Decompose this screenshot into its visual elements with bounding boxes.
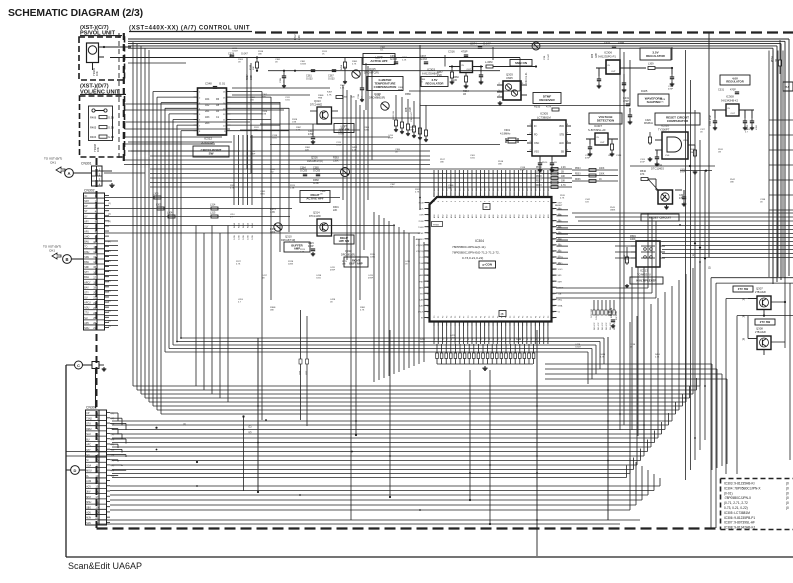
- svg-text:18: 18: [93, 280, 96, 284]
- svg-text:R022: R022: [608, 312, 614, 314]
- svg-text:(2): (2): [112, 465, 115, 467]
- svg-text:8: 8: [510, 201, 512, 202]
- svg-text:(1): (1): [183, 423, 186, 426]
- svg-text:DETECTION: DETECTION: [597, 118, 614, 122]
- svg-text:G.B47: G.B47: [232, 51, 239, 53]
- svg-text:P2: P2: [544, 316, 546, 318]
- svg-text:R451: R451: [239, 222, 241, 228]
- svg-text::78P05B0CJJPN-X: :78P05B0CJJPN-X: [724, 496, 752, 500]
- svg-text:G.3B: G.3B: [108, 126, 114, 130]
- svg-text:AN2: AN2: [543, 215, 546, 219]
- right bus horizontals lower from IC313: [662, 245, 793, 247]
- svg-text:R405: R405: [90, 126, 97, 130]
- svg-text:4.7K: 4.7K: [655, 357, 660, 359]
- inductor L304: [486, 65, 493, 68]
- svg-text:P3: P3: [514, 316, 516, 318]
- svg-text:R36: R36: [592, 53, 594, 58]
- svg-text:SMY: SMY: [558, 281, 563, 283]
- svg-text:3B: 3B: [501, 313, 504, 316]
- svg-text:ADU: ADU: [86, 512, 91, 515]
- left boundary verticals and nested L fan: [132, 42, 134, 386]
- right active HPF label box: [300, 191, 330, 203]
- SMB ON label box: [510, 60, 532, 67]
- svg-text:3: 3: [428, 215, 429, 217]
- svg-text:8: 8: [434, 201, 436, 202]
- svg-text:R58K: R58K: [405, 93, 411, 96]
- svg-text:4.7K: 4.7K: [352, 64, 357, 66]
- svg-text:8: 8: [531, 201, 533, 202]
- svg-text:3TV SW: 3TV SW: [738, 287, 749, 291]
- svg-text:56: 56: [552, 227, 554, 229]
- right hpf sw label box: [334, 235, 354, 244]
- svg-text:Q314: Q314: [313, 211, 320, 215]
- svg-text:8: 8: [438, 201, 440, 202]
- svg-text:8: 8: [518, 201, 520, 202]
- IC310 comparator: [662, 132, 688, 159]
- svg-text:(XST=440X-XX) (A/7) CONTROL UN: (XST=440X-XX) (A/7) CONTROL UNIT: [129, 26, 250, 32]
- svg-text:10K: 10K: [96, 147, 100, 152]
- svg-text:15: 15: [93, 265, 96, 269]
- svg-text:1B: 1B: [463, 93, 466, 96]
- svg-text:4.7K: 4.7K: [327, 94, 332, 96]
- svg-text:IC305 :LC73881M: IC305 :LC73881M: [724, 511, 750, 515]
- svg-text:(1): (1): [249, 426, 252, 429]
- svg-text:AN0: AN0: [501, 215, 504, 219]
- svg-text:(1): (1): [558, 208, 561, 210]
- svg-text:P1: P1: [438, 316, 440, 318]
- svg-text:1BK: 1BK: [420, 342, 425, 344]
- CN302 inductor row 2: [105, 208, 292, 210]
- svg-text:13: 13: [93, 255, 96, 259]
- svg-text:(4): (4): [558, 226, 561, 228]
- svg-text:APC: APC: [84, 322, 89, 325]
- svg-text:2.2K: 2.2K: [402, 60, 407, 62]
- svg-text:G.047: G.047: [596, 314, 598, 320]
- svg-text:8: 8: [506, 201, 508, 202]
- svg-text:(2): (2): [558, 238, 561, 240]
- IC312 left pin wires: [153, 91, 194, 93]
- svg-text:12: 12: [93, 250, 96, 254]
- node B circle: [63, 255, 72, 264]
- svg-text:C31B: C31B: [358, 93, 360, 99]
- svg-text:(1): (1): [558, 256, 561, 258]
- svg-text:1: 1: [428, 203, 429, 205]
- svg-text:G.033: G.033: [306, 78, 313, 81]
- svg-text:S-80739SL-AF: S-80739SL-AF: [588, 128, 606, 132]
- svg-text:SnU: SnU: [86, 434, 91, 436]
- svg-text:G.B1: G.B1: [285, 100, 291, 102]
- IC305 DTMF IC: [532, 120, 566, 156]
- svg-text:T3N2: T3N2: [86, 418, 92, 420]
- svg-text:ACK: ACK: [559, 142, 564, 145]
- svg-text:19: 19: [427, 311, 429, 313]
- svg-text:IC306 :9-81235PB-P1: IC306 :9-81235PB-P1: [724, 516, 755, 520]
- svg-text:VDD: VDD: [559, 125, 564, 128]
- svg-text:AMREFI: AMREFI: [416, 238, 424, 241]
- svg-text:22BK: 22BK: [364, 130, 370, 132]
- svg-text:MO: MO: [420, 293, 424, 295]
- svg-text:SDU: SDU: [84, 257, 89, 259]
- svg-text:LC73881M: LC73881M: [537, 116, 551, 120]
- svg-text:22BK: 22BK: [370, 257, 376, 259]
- svg-text:G.3B: G.3B: [234, 235, 236, 240]
- svg-text:4.19MHz: 4.19MHz: [500, 132, 511, 136]
- svg-text:LCM: LCM: [86, 481, 91, 483]
- 3.5V regulator label box: [421, 77, 448, 87]
- svg-text:(1): (1): [112, 429, 115, 431]
- svg-text:L303: L303: [153, 192, 159, 195]
- svg-text:15: 15: [95, 485, 98, 489]
- svg-text:TGK8: TGK8: [418, 227, 424, 229]
- svg-text:C314 G.01: C314 G.01: [525, 72, 528, 84]
- svg-text:REGULATOR: REGULATOR: [726, 80, 743, 84]
- svg-text:CN303: CN303: [86, 406, 97, 410]
- svg-text:G.B: G.B: [585, 202, 589, 204]
- Q304 transistor: [658, 190, 673, 204]
- bus junction dots: [243, 429, 245, 431]
- svg-text:8: 8: [447, 201, 449, 202]
- svg-text:42: 42: [552, 311, 554, 313]
- IC304 bottom-right resistor column: [593, 300, 595, 310]
- svg-text:2: 2: [428, 209, 429, 211]
- svg-text:(4): (4): [558, 250, 561, 252]
- svg-text:16: 16: [95, 490, 98, 494]
- svg-text:G.033: G.033: [328, 78, 335, 81]
- svg-text:3YS8: 3YS8: [418, 221, 424, 223]
- right bus horizontals upper: [572, 212, 793, 214]
- voltage detection label box: [589, 113, 622, 124]
- svg-text:AN5: AN5: [488, 215, 491, 219]
- svg-text:P6: P6: [459, 316, 461, 318]
- svg-text:AN6: AN6: [526, 215, 529, 219]
- svg-text:IC310: IC310: [661, 124, 669, 128]
- left active HPF label box: [363, 54, 395, 65]
- svg-text:8: 8: [455, 201, 457, 202]
- IC308 caps: [714, 110, 716, 118]
- svg-text:SI: SI: [86, 460, 89, 462]
- svg-text:G.3B: G.3B: [239, 235, 241, 240]
- svg-text:8: 8: [451, 201, 453, 202]
- svg-text:6: 6: [428, 233, 429, 235]
- svg-text:R450: R450: [234, 222, 236, 228]
- svg-text:(0: (0: [786, 501, 789, 505]
- svg-text:G3B: G3B: [596, 53, 598, 58]
- svg-text:(1): (1): [112, 413, 115, 415]
- svg-text:IC307 :9-80739SL-AF: IC307 :9-80739SL-AF: [724, 521, 755, 525]
- svg-text:24: 24: [93, 311, 96, 315]
- svg-text:47BP: 47BP: [368, 278, 374, 280]
- svg-text:(2): (2): [708, 267, 711, 270]
- svg-text:ACV: ACV: [86, 485, 91, 488]
- svg-text:4: 4: [428, 221, 429, 223]
- svg-text:MSY: MSY: [86, 497, 91, 499]
- svg-text:(0-01): (0-01): [724, 491, 733, 495]
- svg-text:4.7K: 4.7K: [296, 130, 301, 132]
- svg-text:CN302: CN302: [84, 189, 95, 193]
- capacitor C313 group: [451, 67, 453, 73]
- svg-text:IC304 :78P05B0CJJPN-X: IC304 :78P05B0CJJPN-X: [724, 486, 761, 490]
- svg-text:14: 14: [427, 281, 429, 283]
- long verticals x620 x624: [619, 48, 621, 430]
- right edge verticals lower: [768, 51, 770, 278]
- IC304 inner small box 3B: [499, 311, 506, 317]
- IC304 inner small box 1C: [483, 204, 490, 210]
- svg-text:BU: BU: [86, 439, 90, 441]
- svg-text:DRCA811(R): DRCA811(R): [341, 253, 355, 256]
- svg-text:D325: D325: [641, 89, 648, 93]
- svg-text:G.B1: G.B1: [272, 138, 278, 140]
- svg-text:1BB: 1BB: [410, 130, 415, 132]
- svg-text:G.047: G.047: [241, 53, 248, 56]
- svg-text:AN5: AN5: [522, 215, 525, 219]
- svg-text:18: 18: [427, 305, 429, 307]
- svg-text:1GB: 1GB: [292, 122, 297, 124]
- svg-text:7: 7: [428, 239, 429, 241]
- svg-text:0-73, 0-21, 0-22): 0-73, 0-21, 0-22): [724, 506, 748, 510]
- IC312 right verticals: [261, 92, 263, 421]
- svg-text:M3N: M3N: [86, 518, 91, 520]
- svg-text:1C1B: 1C1B: [536, 172, 542, 174]
- svg-text:AN5: AN5: [454, 215, 457, 219]
- bottom bus horizontal wires: [133, 385, 700, 387]
- svg-text:AN7: AN7: [496, 215, 499, 219]
- svg-text:(3): (3): [112, 423, 115, 425]
- svg-text:(4): (4): [108, 241, 111, 243]
- svg-text:3KV: 3KV: [86, 492, 91, 494]
- svg-text:470P: 470P: [730, 89, 736, 92]
- svg-text:0-73,0-21,0-22): 0-73,0-21,0-22): [462, 256, 483, 260]
- svg-text:47BP: 47BP: [680, 172, 686, 174]
- IC303 3.5V regulator: [460, 61, 473, 73]
- svg-text:1R3: 1R3: [205, 116, 210, 119]
- svg-text:(2): (2): [112, 418, 115, 420]
- svg-text:AN0: AN0: [467, 215, 470, 219]
- svg-text:14: 14: [95, 479, 98, 483]
- svg-text:10K: 10K: [95, 71, 99, 76]
- svg-text:8: 8: [493, 201, 495, 202]
- Q314 transistor: [317, 219, 332, 236]
- svg-text:STU: STU: [86, 424, 91, 426]
- svg-text:P1: P1: [472, 316, 474, 318]
- Q313 transistor: [317, 107, 332, 124]
- 3.5V regulator 2 label box: [640, 48, 671, 60]
- svg-text:R43 4.7K: R43 4.7K: [606, 322, 608, 330]
- svg-text:MN3811: MN3811: [644, 122, 654, 125]
- svg-text:AN2: AN2: [509, 215, 512, 218]
- svg-text:G.3B: G.3B: [108, 135, 114, 139]
- svg-text:3C: 3C: [84, 196, 87, 198]
- svg-text:NDU: NDU: [84, 308, 89, 310]
- CN302 short stubs: [105, 240, 118, 242]
- center horizontals y142-186: [128, 141, 232, 143]
- svg-text:R404: R404: [90, 135, 97, 139]
- svg-text:470P: 470P: [640, 162, 645, 164]
- svg-text:15: 15: [427, 287, 429, 289]
- svg-text:G.033: G.033: [420, 58, 427, 61]
- svg-text:G.3B: G.3B: [243, 235, 245, 240]
- svg-text:51: 51: [552, 257, 554, 259]
- R530 resistor: [694, 145, 696, 150]
- svg-text:STB: STB: [559, 134, 564, 137]
- control unit dashed boundary top: [255, 31, 793, 33]
- svg-text:S1N: S1N: [86, 523, 91, 525]
- svg-text:C348: C348: [205, 82, 212, 86]
- svg-text:KT (N2): KT (N2): [416, 245, 424, 247]
- svg-text:G.B1: G.B1: [316, 278, 322, 280]
- right long verticals x685-705: [685, 50, 687, 480]
- svg-text:Q310: Q310: [285, 235, 292, 239]
- svg-text:SDF: SDF: [84, 267, 89, 269]
- svg-text:54: 54: [552, 239, 554, 241]
- svg-text:8: 8: [548, 201, 550, 202]
- left hpf sw label box: [334, 124, 354, 133]
- svg-text:CH1: CH1: [50, 161, 56, 165]
- svg-text:AN3: AN3: [446, 215, 449, 219]
- component chains x395-428: [395, 95, 397, 120]
- svg-text:G.033: G.033: [390, 58, 397, 61]
- svg-text:1D4: 1D4: [205, 98, 210, 101]
- svg-text:1.3B: 1.3B: [290, 188, 295, 190]
- svg-text:DNU: DNU: [84, 252, 89, 254]
- svg-text:BAU: BAU: [84, 276, 89, 279]
- svg-text:(1): (1): [112, 475, 115, 477]
- svg-text:1BK: 1BK: [730, 182, 735, 184]
- svg-text:2TB1132K: 2TB1132K: [755, 291, 767, 294]
- svg-text:AFU: AFU: [84, 231, 89, 234]
- small inductors L306 L307: [299, 359, 302, 364]
- svg-text:(0: (0: [786, 506, 789, 510]
- svg-text:13: 13: [427, 275, 429, 277]
- svg-text:8: 8: [535, 201, 537, 202]
- svg-text:25: 25: [93, 316, 96, 320]
- svg-text:1GB: 1GB: [410, 107, 412, 112]
- svg-text:CP: CP: [86, 413, 90, 415]
- svg-text:RCM: RCM: [419, 203, 424, 205]
- svg-text:1-SO: 1-SO: [558, 269, 563, 271]
- long vertical wire x420: [419, 45, 421, 210]
- svg-text:59: 59: [552, 209, 554, 211]
- svg-text:P5: P5: [523, 316, 525, 318]
- IC304 top pins: [433, 193, 435, 198]
- svg-text:MSU: MSU: [86, 502, 91, 504]
- svg-text:(1): (1): [692, 254, 695, 257]
- svg-text:T1B: T1B: [558, 293, 562, 295]
- svg-text:P0: P0: [468, 316, 470, 318]
- svg-text:G.B47: G.B47: [575, 347, 582, 349]
- IC307 caps: [589, 139, 591, 144]
- svg-text:(2): (2): [112, 434, 115, 436]
- svg-text:1BK: 1BK: [258, 54, 263, 56]
- svg-text:APCU: APCU: [84, 302, 91, 305]
- svg-text:47BP: 47BP: [388, 138, 394, 140]
- IC308 regulator: [726, 104, 739, 116]
- svg-text:10K: 10K: [253, 66, 255, 70]
- svg-text:AN2: AN2: [441, 215, 444, 219]
- svg-text:BAY: BAY: [84, 286, 89, 289]
- svg-text:2D3: 2D3: [205, 122, 210, 125]
- long vertical wire x390: [389, 330, 391, 497]
- svg-text:58: 58: [552, 215, 554, 217]
- svg-text:STY: STY: [84, 292, 89, 294]
- svg-text:(1): (1): [112, 460, 115, 462]
- svg-text:HY6B: HY6B: [433, 225, 439, 227]
- svg-text:C: C: [77, 363, 80, 368]
- svg-text:R41 4.7K: R41 4.7K: [598, 322, 600, 330]
- svg-text:52: 52: [552, 251, 554, 253]
- svg-text:16: 16: [93, 270, 96, 274]
- long verticals below IC304: [469, 370, 471, 500]
- svg-text:18: 18: [95, 500, 98, 504]
- svg-text:9: 9: [428, 251, 429, 253]
- svg-text:BRK: BRK: [419, 287, 424, 289]
- junction dots bottom left: [155, 427, 157, 429]
- svg-text:8: 8: [464, 201, 466, 202]
- svg-text:REGULATOR: REGULATOR: [646, 54, 666, 58]
- bottom single wires: [97, 519, 640, 521]
- svg-text:(3): (3): [742, 338, 745, 341]
- svg-text:RECEIVER: RECEIVER: [539, 98, 555, 102]
- IC313 left feed wires: [615, 245, 636, 247]
- svg-text:22K: 22K: [333, 209, 338, 212]
- svg-text:11: 11: [96, 464, 99, 468]
- node A circle: [65, 169, 74, 178]
- svg-text:P7: P7: [531, 316, 533, 318]
- svg-text:100K: 100K: [630, 238, 636, 241]
- svg-text:L305: L305: [156, 203, 162, 206]
- svg-text:8: 8: [502, 201, 504, 202]
- svg-text:SCHEMATIC DIAGRAM (2/3): SCHEMATIC DIAGRAM (2/3): [8, 8, 143, 19]
- svg-text:DRCA8K1T(R): DRCA8K1T(R): [307, 160, 323, 163]
- svg-text:43: 43: [552, 305, 554, 307]
- svg-text:1BK: 1BK: [342, 264, 347, 266]
- svg-text:P7: P7: [497, 316, 499, 318]
- svg-text:8: 8: [523, 201, 525, 202]
- svg-text:P7: P7: [464, 316, 466, 318]
- svg-text:AN3: AN3: [513, 215, 516, 219]
- IC304 right stubs: [557, 209, 569, 211]
- svg-text:P6: P6: [527, 316, 529, 318]
- svg-text:AN3: AN3: [547, 215, 550, 219]
- svg-text:R519: R519: [536, 167, 542, 169]
- svg-text:AFY: AFY: [84, 220, 89, 223]
- svg-text:C318: C318: [616, 155, 622, 157]
- IC306 regulator: [606, 60, 620, 74]
- svg-text:(2): (2): [249, 431, 252, 434]
- multiplexer label box: [630, 277, 663, 284]
- svg-text:IC308: IC308: [726, 95, 734, 99]
- IC305 bottom components: [539, 156, 541, 160]
- svg-text:45: 45: [552, 293, 554, 295]
- svg-text:8: 8: [485, 201, 487, 202]
- svg-text:Q303: Q303: [506, 73, 513, 77]
- svg-text:G.01: G.01: [219, 82, 226, 86]
- svg-text:SHO: SHO: [84, 237, 89, 239]
- svg-text:19: 19: [95, 505, 98, 509]
- svg-text:R40 4.7K: R40 4.7K: [594, 322, 596, 330]
- svg-text:(0: (0: [786, 496, 789, 500]
- svg-text:KT (TB): KT (TB): [416, 251, 424, 253]
- svg-text:PBY: PBY: [419, 281, 424, 283]
- svg-text:8: 8: [442, 201, 444, 202]
- svg-text:P2: P2: [476, 316, 478, 318]
- svg-text:P5: P5: [455, 316, 457, 318]
- svg-text:C316: C316: [448, 50, 455, 54]
- svg-text:20: 20: [93, 291, 96, 295]
- svg-text:46: 46: [552, 287, 554, 289]
- svg-text:8: 8: [480, 201, 482, 202]
- svg-text:21: 21: [93, 296, 96, 300]
- svg-text:C3B: C3B: [544, 55, 546, 60]
